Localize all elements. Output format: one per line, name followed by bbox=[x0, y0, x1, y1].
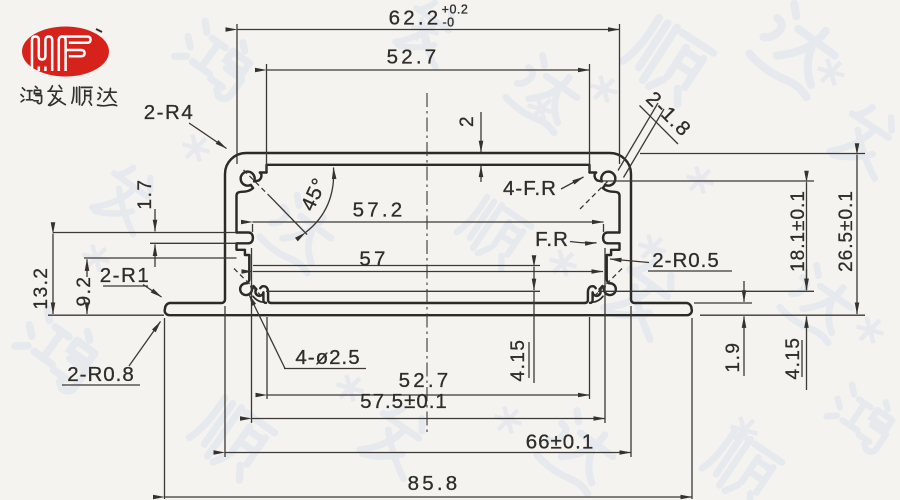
dim 9.2: extension line at slot step bbox=[84, 257, 237, 259]
watermark star mark bbox=[491, 405, 524, 435]
logo HF white tube letters bbox=[32, 37, 91, 72]
svg-text:4.15: 4.15 bbox=[508, 339, 529, 382]
watermark star mark bbox=[814, 57, 847, 87]
watermark character bbox=[170, 14, 260, 101]
svg-text:2-R1: 2-R1 bbox=[100, 264, 150, 287]
dim 26.5±0.1: dimension line with arrows bbox=[856, 155, 858, 314]
svg-text:2-R0.8: 2-R0.8 bbox=[67, 363, 135, 386]
watermark star mark bbox=[179, 133, 212, 163]
watermark character bbox=[828, 99, 900, 181]
dim 9.2: upper dimension segment with arrow bbox=[86, 259, 88, 277]
watermark character bbox=[90, 160, 165, 237]
dim 4.15 right: text underline bbox=[801, 340, 803, 377]
label 2-R0.8 underline bbox=[62, 384, 140, 386]
leader 2-1.8: double pointer lines at top-right corner bbox=[618, 103, 658, 171]
watermark character bbox=[505, 52, 587, 134]
watermark character bbox=[619, 13, 714, 106]
leader 2-R0.8 with arrow at flange tip bottom radius bbox=[129, 322, 161, 367]
svg-text:2-R0.5: 2-R0.5 bbox=[652, 249, 720, 272]
watermark character bbox=[536, 407, 624, 494]
dim 4.15 right: lower pointer with arrow bbox=[806, 316, 808, 390]
dim 62.2: right extension line bbox=[619, 24, 621, 164]
svg-text:57.2: 57.2 bbox=[353, 199, 406, 222]
svg-text:F.R: F.R bbox=[535, 228, 569, 251]
watermark star mark bbox=[546, 248, 579, 278]
label 2-R0.5 underline bbox=[648, 270, 732, 272]
dim 2: upper pointer line with arrow at outer face bbox=[480, 112, 482, 152]
watermark star mark bbox=[333, 373, 366, 403]
watermark star mark bbox=[408, 15, 441, 45]
watermark star mark bbox=[683, 165, 716, 195]
svg-text:62.2: 62.2 bbox=[389, 7, 442, 30]
dim 1.7: extension line at rail1 bottom bbox=[150, 242, 237, 244]
dim 4.15 (center): dimension line with arrows and tail bbox=[533, 267, 535, 290]
dim 2: lower pointer line with arrow at inner face bbox=[480, 166, 482, 182]
dim 1.9: upper pointer with arrow at flange top bbox=[743, 281, 745, 302]
dim 18.1±0.1: dimension line with arrows bbox=[806, 182, 808, 290]
watermark character bbox=[779, 262, 861, 344]
label 2-1.8 underline bbox=[640, 106, 679, 145]
leader 4-dia2.5 with arrow at bottom-left boss bbox=[249, 295, 285, 369]
inner ceiling between 52.7 steps bbox=[267, 165, 590, 173]
top-left screw boss: ledge, jaw, circle (opening 45deg), tail bbox=[237, 172, 267, 233]
flange bottom extension line (right) bbox=[700, 314, 865, 316]
dim 57.2: left extension tick bbox=[252, 224, 254, 232]
dim 4.15 (right): upper pointer with arrow bbox=[806, 269, 808, 290]
dim 66±0.1: dimension line with arrows bbox=[225, 452, 631, 454]
dim 52.7 bottom: left extension line bbox=[266, 317, 268, 399]
svg-text:57.5±0.1: 57.5±0.1 bbox=[360, 390, 448, 413]
dim 66: left extension line bbox=[224, 306, 226, 457]
dim 1.7: lower pointer with arrow at rail bottom bbox=[154, 245, 156, 268]
logo trademark tick bbox=[96, 29, 102, 32]
leader F.R with arrow at right rail bbox=[570, 242, 597, 243]
profile vertical centerline (dash-dot) bbox=[426, 93, 428, 433]
dim 57.5±0.1: dimension line with arrows bbox=[252, 418, 606, 420]
svg-text:85.8: 85.8 bbox=[408, 472, 461, 495]
leader 2-R4 with arrow at outer corner radius bbox=[189, 123, 227, 149]
dim 57.2: right extension tick bbox=[603, 224, 605, 232]
dim 52.7 top: left extension line bbox=[266, 64, 268, 171]
watermark character bbox=[454, 193, 532, 270]
dim 52.7 top: right extension line bbox=[589, 64, 591, 171]
dim 62.2 +0.2/-0: dimension line with arrows bbox=[237, 29, 620, 31]
dim 85.8: dimension line with arrows bbox=[165, 496, 693, 498]
45 deg: solid reference line at 45 degrees bbox=[270, 197, 307, 235]
dim 52.7 (top): dimension line with arrows bbox=[267, 69, 590, 71]
dim 4.15 center: upper extension line bbox=[253, 265, 540, 267]
dim 1.9: lower pointer with arrow at flange bottom bbox=[743, 316, 745, 376]
svg-text:2: 2 bbox=[457, 115, 478, 127]
watermark star mark bbox=[587, 74, 620, 104]
label 2-R1 underline bbox=[103, 285, 148, 287]
logo red ellipse bbox=[22, 27, 109, 77]
svg-text:4-F.R: 4-F.R bbox=[503, 177, 557, 200]
bottom-left boss pocket floor bbox=[253, 296, 263, 302]
leader 2-R0.5 with arrow at right wall step bbox=[610, 259, 649, 263]
watermark character bbox=[393, 0, 466, 69]
watermark character bbox=[602, 254, 688, 342]
dim 57.5: left extension line bbox=[251, 248, 253, 423]
svg-text:4-ø2.5: 4-ø2.5 bbox=[295, 346, 360, 369]
watermark star mark bbox=[853, 315, 886, 345]
dim 57.2: dimension line with arrows bbox=[253, 221, 604, 223]
dim 85.8: right extension line bbox=[691, 318, 693, 499]
watermark star mark bbox=[727, 415, 760, 445]
watermark character bbox=[258, 192, 340, 274]
svg-text:2-R4: 2-R4 bbox=[144, 101, 194, 124]
watermark character bbox=[357, 399, 437, 482]
svg-text:52.7: 52.7 bbox=[387, 46, 440, 69]
svg-text:1.9: 1.9 bbox=[723, 342, 744, 373]
dim 52.7 bottom: right extension line bbox=[589, 317, 591, 399]
svg-text:66±0.1: 66±0.1 bbox=[526, 431, 595, 454]
outer contour of extrusion (top wall, side walls, bottom flange) bbox=[165, 153, 692, 315]
watermark character bbox=[748, 0, 847, 98]
svg-text:4.15: 4.15 bbox=[783, 337, 804, 380]
leader 2-R1 with arrow at flange tip top radius bbox=[143, 285, 162, 298]
dashed centerline through top-right boss bbox=[580, 181, 608, 209]
dashed centerline through bottom-left boss bbox=[234, 269, 261, 296]
leader 4-F.R with arrow at top-right boss jaw bbox=[561, 177, 584, 189]
dim 4.15 center: text underline bbox=[528, 342, 530, 378]
dim 1.7: upper pointer with arrow at rail top bbox=[154, 209, 156, 231]
bottom-left screw channel jaw lobe and stub wall bbox=[253, 286, 266, 303]
dim 1.9: extension line at flange top (right) bbox=[694, 302, 752, 304]
flange bottom extension line (left) bbox=[48, 314, 164, 316]
svg-text:1.7: 1.7 bbox=[135, 179, 156, 210]
label 4-dia2.5 underline bbox=[284, 368, 366, 370]
dim 18.1: upper extension line bbox=[600, 180, 814, 182]
dim 57.5: right extension line bbox=[604, 248, 606, 423]
dim 4.15 center: lower extension line bbox=[266, 290, 540, 292]
dim 62.2: left extension line bbox=[236, 24, 238, 164]
watermark character bbox=[699, 426, 783, 500]
svg-text:+0.2: +0.2 bbox=[442, 3, 469, 17]
svg-text:13.2: 13.2 bbox=[31, 267, 52, 310]
left wall rails and PCB slot steps bbox=[237, 233, 253, 279]
svg-text:52.7: 52.7 bbox=[399, 369, 452, 392]
svg-text:57: 57 bbox=[359, 248, 388, 271]
svg-text:26.5±0.1: 26.5±0.1 bbox=[836, 190, 857, 272]
svg-text:-0: -0 bbox=[442, 16, 454, 30]
profile drawing bbox=[165, 153, 692, 315]
dashed centerline through bottom-right boss bbox=[595, 269, 622, 296]
dim 13.2: dimension line with arrows bbox=[52, 234, 54, 314]
dim 1.7/13.2: extension line at rail1 top bbox=[53, 232, 237, 234]
dim 85.8: left extension line bbox=[164, 318, 166, 499]
watermark character bbox=[186, 393, 276, 481]
dim 52.7 (bottom): dimension line with arrows bbox=[267, 394, 590, 396]
watermark star mark bbox=[524, 94, 557, 124]
dim 9.2: lower dimension segment with arrow bbox=[86, 304, 88, 314]
interior floor between screw stubs bbox=[271, 302, 586, 304]
dim 26.5: upper extension line bbox=[640, 153, 865, 155]
45 deg: dashed centerline through top-left boss slot bbox=[244, 170, 271, 197]
svg-text:18.1±0.1: 18.1±0.1 bbox=[788, 190, 809, 272]
svg-text:9.2: 9.2 bbox=[74, 276, 95, 307]
watermark star mark bbox=[79, 243, 112, 273]
shared extension line at boss hook level (right) bbox=[598, 290, 814, 292]
logo bbox=[21, 27, 117, 106]
dim 57: dimension line with arrows bbox=[253, 271, 603, 273]
watermark character bbox=[823, 379, 900, 454]
watermark character bbox=[10, 302, 105, 394]
45 deg: dimension arc with arrows bbox=[306, 168, 334, 233]
watermark star mark bbox=[635, 233, 668, 263]
dim 66: right extension line bbox=[630, 306, 632, 457]
bottom-left screw boss circle with 45deg slot bbox=[240, 279, 252, 295]
logo company name (drawn CJK strokes) bbox=[21, 85, 117, 105]
